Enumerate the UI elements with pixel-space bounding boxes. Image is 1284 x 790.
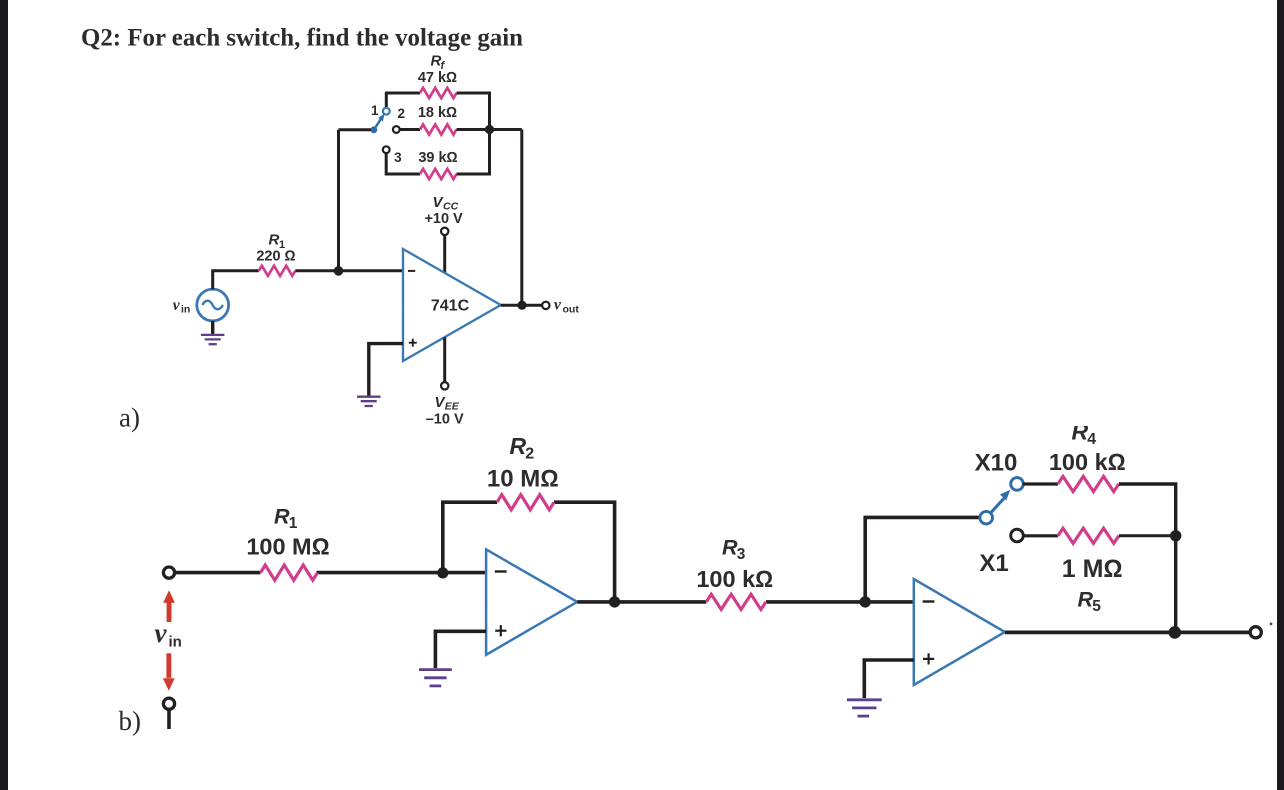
wire X10 to R4 (1023, 482, 1058, 485)
svg-text:3: 3 (394, 150, 402, 165)
ground below source (201, 321, 224, 344)
label vout (554, 297, 579, 316)
resistor R2 zigzag (497, 495, 554, 510)
wire R4 right and down (1119, 484, 1176, 633)
plus sign op-amp 2 (923, 653, 934, 664)
switch arm with arrowhead (374, 114, 385, 130)
label R1 (269, 232, 286, 252)
label R3 (722, 536, 746, 564)
svg-text:+10 V: +10 V (424, 211, 463, 227)
stray dot near output (1270, 623, 1273, 626)
svg-text:4: 4 (1087, 431, 1096, 448)
switch throw terminal 1 (blue circle) (383, 108, 390, 115)
resistor 18k zigzag (420, 124, 456, 134)
resistor R5 zigzag (1058, 528, 1119, 543)
junction dot inverting node op1 (437, 567, 448, 578)
svg-text:in: in (181, 304, 190, 316)
red arrow down (163, 653, 175, 691)
svg-text:741C: 741C (431, 298, 470, 315)
svg-text:100 MΩ: 100 MΩ (246, 534, 329, 560)
svg-text:1: 1 (371, 103, 379, 118)
switch throw X10 circle (blue) (1011, 478, 1024, 491)
svg-text:5: 5 (1092, 598, 1101, 615)
output terminal circle b (1250, 627, 1261, 638)
label R2 (510, 433, 535, 463)
wire left vertical down to inverting input node (337, 130, 340, 271)
switch throw terminal 3 (circle) (383, 146, 390, 153)
svg-text:R: R (722, 536, 738, 560)
ground op1 (419, 670, 452, 686)
svg-text:v: v (173, 297, 181, 314)
svg-text:R: R (1078, 587, 1094, 611)
resistor 39k zigzag (420, 169, 456, 179)
wire from switch common to left vertical (339, 128, 372, 131)
label R5 (1078, 587, 1102, 615)
svg-text:2: 2 (398, 106, 406, 121)
svg-text:39 kΩ: 39 kΩ (418, 150, 457, 166)
svg-text:47 kΩ: 47 kΩ (418, 70, 457, 86)
label vin b (155, 618, 182, 650)
svg-text:10 MΩ: 10 MΩ (487, 465, 559, 492)
wire noninverting input op2 to ground (864, 660, 914, 698)
wire R1 to inverting input (295, 269, 403, 272)
red arrow up (163, 590, 175, 622)
svg-text:out: out (563, 303, 580, 315)
svg-text:–10 V: –10 V (426, 411, 464, 427)
source vin (sine symbol) (197, 289, 229, 321)
ground at noninverting input (357, 397, 381, 406)
svg-text:1: 1 (289, 515, 298, 532)
right black bar (1277, 0, 1284, 790)
label vin (173, 297, 191, 316)
wire VCC to op-amp (443, 235, 446, 273)
wire bottom rail right (457, 173, 490, 176)
op-amp 741C triangle (403, 249, 501, 361)
output terminal vout circle (542, 302, 549, 309)
wire VEE from op-amp down (443, 337, 446, 382)
wire feedback up-over-down R2 (443, 502, 615, 602)
svg-text:X10: X10 (975, 450, 1018, 477)
VCC terminal circle (441, 228, 448, 235)
resistor R4 zigzag (1058, 476, 1119, 491)
minus sign op-amp 1 (495, 570, 507, 572)
wire R5 to right vertical (1119, 534, 1176, 537)
junction dot inverting node (334, 266, 344, 276)
svg-text:b): b) (119, 706, 142, 736)
wire right vertical joining three branches (488, 92, 491, 176)
switch common pole dot (blue) (370, 126, 377, 133)
label VCC (433, 194, 459, 213)
label VEE (435, 394, 460, 413)
VEE terminal circle (441, 382, 448, 389)
wire top rail right (457, 92, 492, 95)
wire X1 to R5 (1023, 534, 1058, 537)
svg-text:100 kΩ: 100 kΩ (696, 566, 773, 592)
svg-text:1 MΩ: 1 MΩ (1062, 555, 1123, 583)
minus sign op-amp a (408, 270, 415, 272)
svg-text:in: in (169, 633, 182, 650)
svg-text:18 kΩ: 18 kΩ (418, 105, 457, 121)
input terminal circle b (163, 567, 174, 578)
svg-text:Q2: For each switch, find the: Q2: For each switch, find the voltage ga… (81, 25, 523, 52)
label R4 (top clipped) (1064, 415, 1104, 448)
wire feedback up to switch common (865, 517, 980, 602)
wire noninverting input op1 to ground (435, 631, 486, 668)
wire from source up and right to R1 (213, 271, 259, 290)
svg-text:220 Ω: 220 Ω (256, 249, 295, 265)
wire from terminal 2 to 18k (400, 128, 420, 131)
svg-text:v: v (155, 618, 168, 648)
switch throw X1 circle (1011, 529, 1024, 542)
svg-text:v: v (554, 297, 562, 314)
wire input to first op-amp (175, 571, 487, 575)
junction dot output a (517, 301, 526, 310)
resistor R3 zigzag (706, 594, 766, 609)
svg-text:100 kΩ: 100 kΩ (1049, 449, 1126, 475)
wire feedback right vertical down to output (520, 130, 523, 306)
junction dot output b (1169, 626, 1182, 639)
wire op2 output to terminal (1005, 631, 1249, 635)
lower terminal circle b with stem (163, 698, 174, 729)
junction dot inverting node op2 (860, 596, 871, 607)
left black bar (0, 0, 8, 790)
plus sign op-amp 1 (495, 625, 506, 636)
svg-text:a): a) (119, 403, 140, 433)
wire from terminal 3 down and right to 39k (386, 153, 420, 174)
op-amp 2 triangle (914, 579, 1005, 685)
junction dot middle rail (485, 125, 494, 134)
wire op1 output to op2 input (577, 600, 914, 604)
ground op2 (847, 700, 882, 716)
svg-text:X1: X1 (979, 550, 1008, 577)
switch common pole circle b (blue) (980, 511, 993, 524)
svg-text:2: 2 (525, 446, 534, 463)
switch throw terminal 2 (circle) (393, 126, 400, 133)
svg-text:3: 3 (737, 546, 746, 563)
op-amp 1 triangle (486, 549, 577, 654)
wire middle rail right to feedback corner (457, 128, 522, 131)
resistor R1 b zigzag (261, 565, 318, 580)
svg-text:R: R (274, 505, 290, 529)
minus sign op-amp 2 (923, 600, 935, 602)
wire top rail left (385, 92, 420, 95)
resistor R1 zigzag (259, 266, 295, 276)
label R1 b (274, 505, 298, 533)
wire output (501, 304, 542, 307)
svg-text:R: R (510, 433, 527, 459)
wire from circle1 up to top rail (385, 93, 388, 108)
junction dot R5 node (1170, 530, 1181, 541)
label Rf (431, 53, 446, 73)
svg-text:R: R (269, 232, 280, 249)
switch arm b with arrowhead (991, 490, 1010, 513)
resistor Rf 47k zigzag (420, 88, 456, 98)
plus sign op-amp a (409, 339, 417, 347)
wire noninverting input to ground (369, 344, 403, 396)
junction dot op1 output (609, 596, 620, 607)
